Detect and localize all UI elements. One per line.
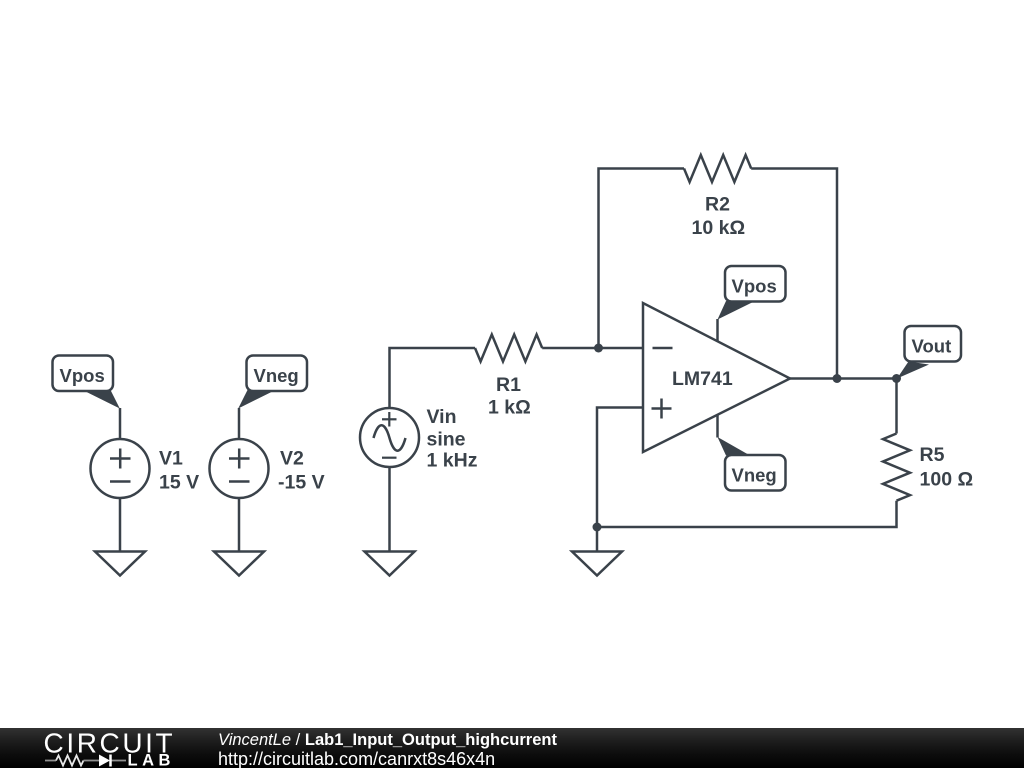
label Vin sine 1 kHz	[427, 406, 478, 472]
svg-text:V2: V2	[280, 448, 304, 470]
wire V1 bottom	[119, 498, 122, 551]
node junction (ground bus)	[593, 523, 602, 532]
footer bar	[0, 728, 1024, 768]
svg-text:R1: R1	[496, 374, 521, 396]
svg-text:Vout: Vout	[912, 336, 952, 357]
ground (V2)	[214, 552, 264, 576]
svg-text:1 kHz: 1 kHz	[427, 450, 478, 472]
voltage source V2	[210, 439, 269, 498]
net tag Vout	[897, 326, 961, 379]
svg-text:100 Ω: 100 Ω	[920, 469, 974, 491]
svg-text:LAB: LAB	[128, 751, 175, 768]
net tag Vneg (at V2)	[238, 356, 307, 409]
net tag Vpos (at V1)	[53, 356, 120, 409]
resistor R2	[684, 155, 751, 182]
label V2 -15 V	[278, 448, 325, 494]
wire R1 to op-amp inverting input	[542, 347, 643, 350]
wire op-amp output	[790, 377, 897, 380]
svg-text:-15 V: -15 V	[278, 472, 325, 494]
credit text	[218, 732, 557, 749]
op-amp V+ pin wire	[716, 319, 719, 342]
wire feedback to output	[751, 169, 837, 379]
svg-text:Vin: Vin	[427, 406, 457, 428]
svg-text:Vpos: Vpos	[732, 276, 777, 297]
svg-text:Vneg: Vneg	[254, 365, 299, 386]
ground (op-amp input / load)	[572, 552, 622, 576]
svg-text:R5: R5	[920, 444, 945, 466]
resistor R5	[883, 434, 910, 501]
svg-text:15 V: 15 V	[159, 472, 199, 494]
wire V2 top	[238, 408, 241, 440]
svg-text:LM741: LM741	[672, 368, 733, 390]
svg-text:1 kΩ: 1 kΩ	[488, 397, 531, 419]
label R2 10 kOhm	[692, 194, 746, 240]
svg-text:sine: sine	[427, 429, 466, 451]
op-amp U1 LM741	[643, 303, 790, 452]
label R5 100 Ohm	[920, 444, 974, 491]
svg-text:V1: V1	[159, 448, 183, 470]
resistor R1	[475, 335, 542, 362]
svg-text:Vpos: Vpos	[60, 365, 105, 386]
node junction Vout	[892, 374, 901, 383]
wire feedback riser	[599, 169, 685, 349]
net tag Vneg (op-amp V-)	[718, 437, 786, 491]
label V1 15 V	[159, 448, 199, 494]
wire Vin top	[390, 348, 476, 408]
svg-text:R2: R2	[705, 194, 730, 216]
svg-text:Vneg: Vneg	[732, 465, 777, 486]
op-amp V- pin wire	[716, 415, 719, 438]
wire Vin bottom	[388, 468, 391, 552]
label R1 1 kOhm	[488, 374, 531, 419]
voltage source Vin (sine)	[360, 408, 419, 467]
ground (Vin)	[365, 552, 415, 576]
wire Vout to R5	[895, 379, 898, 434]
voltage source V1	[91, 439, 150, 498]
wire op-amp non-inverting input to ground	[597, 408, 643, 552]
wire V1 top	[119, 408, 122, 440]
CircuitLab logo	[0, 728, 200, 768]
node junction (inverting input / feedback)	[594, 344, 603, 353]
net tag Vpos (op-amp V+)	[718, 266, 786, 320]
node junction (feedback/output)	[833, 374, 842, 383]
wire V2 bottom	[238, 498, 241, 551]
wire R5 bottom to ground bus	[597, 501, 897, 527]
ground (V1)	[95, 552, 145, 576]
svg-text:10 kΩ: 10 kΩ	[692, 217, 746, 239]
